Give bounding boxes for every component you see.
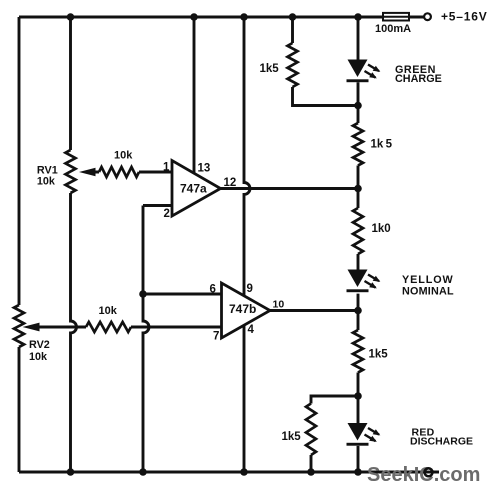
svg-text:RV2: RV2: [29, 339, 50, 351]
svg-text:4: 4: [248, 324, 255, 336]
svg-text:YELLOW: YELLOW: [402, 274, 454, 286]
svg-text:10k: 10k: [99, 305, 118, 317]
svg-text:CHARGE: CHARGE: [395, 73, 442, 85]
svg-text:NOMINAL: NOMINAL: [402, 285, 454, 297]
svg-text:1k 5: 1k 5: [371, 138, 393, 150]
svg-text:1k5: 1k5: [369, 349, 389, 361]
svg-text:1k5: 1k5: [260, 63, 280, 75]
svg-text:1: 1: [163, 162, 170, 174]
svg-text:747a: 747a: [180, 181, 207, 195]
svg-text:12: 12: [224, 177, 237, 189]
svg-text:+5–16V: +5–16V: [441, 10, 488, 24]
svg-text:10k: 10k: [37, 175, 56, 187]
svg-text:10k: 10k: [114, 149, 133, 161]
svg-text:100mA: 100mA: [375, 23, 411, 35]
svg-text:13: 13: [198, 163, 211, 175]
svg-text:1k5: 1k5: [282, 431, 302, 443]
svg-text:SeekIC.com: SeekIC.com: [367, 464, 480, 486]
svg-text:10: 10: [273, 299, 285, 311]
svg-text:6: 6: [210, 284, 216, 296]
svg-text:747b: 747b: [229, 302, 256, 316]
svg-text:1k0: 1k0: [372, 223, 391, 235]
svg-text:2: 2: [164, 208, 170, 220]
svg-text:DISCHARGE: DISCHARGE: [410, 435, 473, 447]
svg-text:9: 9: [247, 283, 253, 295]
svg-text:10k: 10k: [29, 351, 48, 363]
svg-text:7: 7: [213, 331, 219, 343]
